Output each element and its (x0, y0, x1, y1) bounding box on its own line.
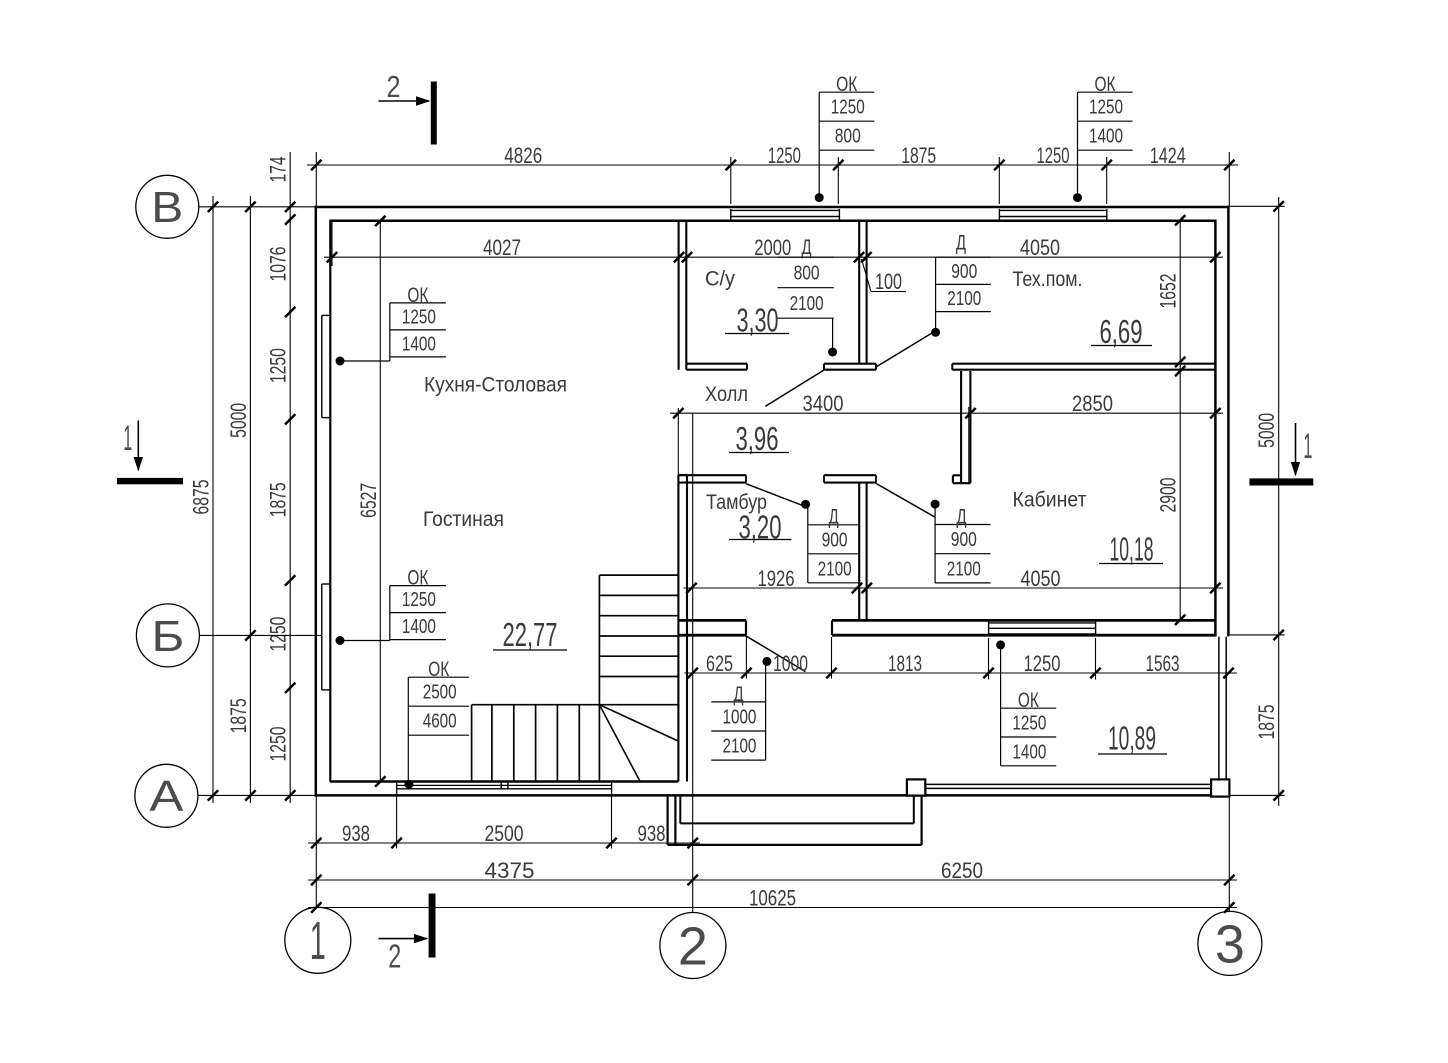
svg-text:1250: 1250 (402, 589, 436, 611)
svg-text:938: 938 (342, 821, 370, 846)
svg-text:ОК: ОК (407, 284, 429, 307)
svg-text:ОК: ОК (407, 567, 429, 590)
svg-text:1250: 1250 (1024, 651, 1061, 676)
svg-text:2100: 2100 (818, 558, 852, 580)
svg-text:1250: 1250 (1037, 143, 1070, 168)
svg-text:1250: 1250 (1012, 713, 1046, 735)
svg-text:1250: 1250 (402, 306, 436, 328)
svg-text:10,18: 10,18 (1110, 531, 1154, 568)
svg-text:900: 900 (951, 261, 977, 283)
svg-text:2850: 2850 (1072, 391, 1113, 416)
svg-text:5000: 5000 (226, 403, 251, 438)
svg-text:2100: 2100 (947, 288, 981, 310)
svg-text:А: А (149, 772, 184, 821)
svg-text:4050: 4050 (1021, 566, 1061, 591)
svg-text:4050: 4050 (1020, 235, 1060, 260)
svg-text:1400: 1400 (402, 333, 436, 355)
svg-text:2100: 2100 (790, 293, 824, 315)
svg-text:4826: 4826 (504, 143, 542, 168)
svg-text:1652: 1652 (1156, 274, 1181, 309)
svg-text:1000: 1000 (773, 651, 808, 676)
svg-text:22,77: 22,77 (503, 616, 558, 653)
svg-text:Д: Д (733, 683, 743, 706)
svg-text:1250: 1250 (768, 143, 801, 168)
svg-text:ОК: ОК (1095, 73, 1117, 96)
svg-text:10625: 10625 (749, 885, 796, 910)
svg-text:1875: 1875 (901, 143, 936, 168)
svg-text:6,69: 6,69 (1100, 313, 1143, 350)
svg-text:Кухня-Столовая: Кухня-Столовая (424, 373, 567, 397)
svg-text:1875: 1875 (226, 698, 251, 733)
svg-text:4375: 4375 (485, 858, 535, 883)
svg-text:3: 3 (1215, 914, 1245, 974)
svg-text:ОК: ОК (836, 73, 858, 96)
svg-text:1875: 1875 (266, 482, 291, 517)
svg-text:С/у: С/у (705, 267, 735, 291)
svg-text:1250: 1250 (266, 617, 291, 652)
svg-text:5000: 5000 (1254, 413, 1279, 448)
svg-text:2500: 2500 (485, 821, 524, 846)
svg-text:1813: 1813 (888, 651, 922, 676)
svg-text:1000: 1000 (722, 707, 756, 729)
svg-text:Тех.пом.: Тех.пом. (1013, 267, 1083, 291)
svg-text:Гостиная: Гостиная (423, 507, 504, 531)
svg-text:1875: 1875 (1254, 705, 1279, 740)
svg-text:1250: 1250 (266, 727, 291, 762)
svg-text:2100: 2100 (947, 558, 981, 580)
svg-text:800: 800 (794, 262, 820, 284)
svg-text:6527: 6527 (356, 483, 381, 518)
svg-text:1400: 1400 (1012, 741, 1046, 763)
svg-text:2100: 2100 (722, 736, 756, 758)
svg-text:1250: 1250 (831, 97, 865, 119)
svg-text:Кабинет: Кабинет (1013, 488, 1087, 512)
svg-text:1: 1 (1303, 427, 1312, 466)
svg-text:Д: Д (957, 505, 967, 528)
svg-text:ОК: ОК (1018, 689, 1040, 712)
svg-text:1: 1 (123, 419, 132, 458)
svg-text:Д: Д (829, 506, 839, 529)
svg-text:ОК: ОК (428, 658, 450, 681)
svg-text:2000: 2000 (754, 235, 791, 260)
svg-text:2: 2 (388, 937, 401, 974)
svg-text:800: 800 (835, 126, 861, 148)
svg-text:938: 938 (638, 821, 666, 846)
svg-text:2500: 2500 (423, 682, 457, 704)
svg-text:2: 2 (678, 916, 708, 976)
svg-text:625: 625 (706, 651, 733, 676)
svg-text:1400: 1400 (402, 616, 436, 638)
svg-text:100: 100 (875, 269, 902, 294)
svg-text:3,96: 3,96 (736, 420, 779, 457)
svg-text:Д: Д (956, 231, 966, 254)
svg-text:1926: 1926 (758, 566, 795, 591)
svg-text:1424: 1424 (1150, 143, 1186, 168)
svg-text:6250: 6250 (941, 858, 983, 883)
svg-text:2900: 2900 (1156, 478, 1181, 513)
svg-text:Холл: Холл (705, 382, 748, 406)
svg-text:2: 2 (387, 69, 401, 104)
svg-text:10,89: 10,89 (1108, 720, 1156, 757)
svg-text:900: 900 (951, 529, 977, 551)
svg-text:1: 1 (310, 911, 326, 971)
svg-text:4027: 4027 (483, 235, 521, 260)
svg-text:6875: 6875 (189, 480, 214, 515)
svg-text:900: 900 (822, 529, 848, 551)
svg-text:В: В (151, 183, 183, 232)
svg-text:174: 174 (266, 157, 291, 183)
svg-text:1250: 1250 (266, 348, 291, 383)
svg-text:1076: 1076 (266, 247, 291, 282)
svg-text:Д: Д (802, 236, 812, 259)
svg-text:1400: 1400 (1089, 126, 1123, 148)
svg-text:4600: 4600 (423, 711, 457, 733)
svg-text:1250: 1250 (1089, 97, 1123, 119)
svg-text:Б: Б (151, 612, 184, 661)
svg-text:3400: 3400 (803, 391, 844, 416)
svg-text:1563: 1563 (1146, 651, 1180, 676)
